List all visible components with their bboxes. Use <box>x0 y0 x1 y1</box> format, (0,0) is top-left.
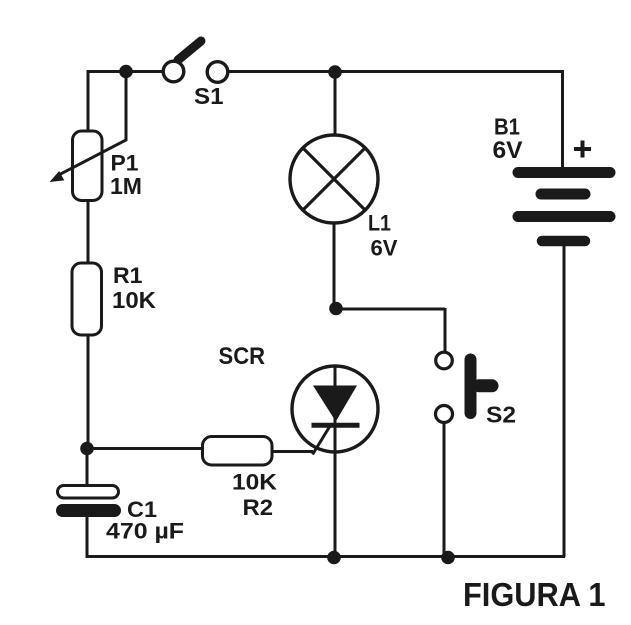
svg-text:R1: R1 <box>113 263 143 288</box>
svg-text:1M: 1M <box>110 173 142 199</box>
svg-text:P1: P1 <box>111 151 139 176</box>
svg-text:L1: L1 <box>368 211 391 236</box>
svg-text:10K: 10K <box>112 287 156 313</box>
svg-text:470 µF: 470 µF <box>106 519 184 544</box>
svg-text:B1: B1 <box>494 114 520 140</box>
svg-text:SCR: SCR <box>219 343 266 370</box>
svg-text:6V: 6V <box>493 137 523 164</box>
svg-text:S1: S1 <box>194 83 224 109</box>
svg-text:FIGURA 1: FIGURA 1 <box>463 576 606 613</box>
svg-text:10K: 10K <box>232 470 277 495</box>
svg-text:R2: R2 <box>243 495 274 520</box>
svg-text:S2: S2 <box>486 402 516 428</box>
svg-text:6V: 6V <box>371 236 398 261</box>
